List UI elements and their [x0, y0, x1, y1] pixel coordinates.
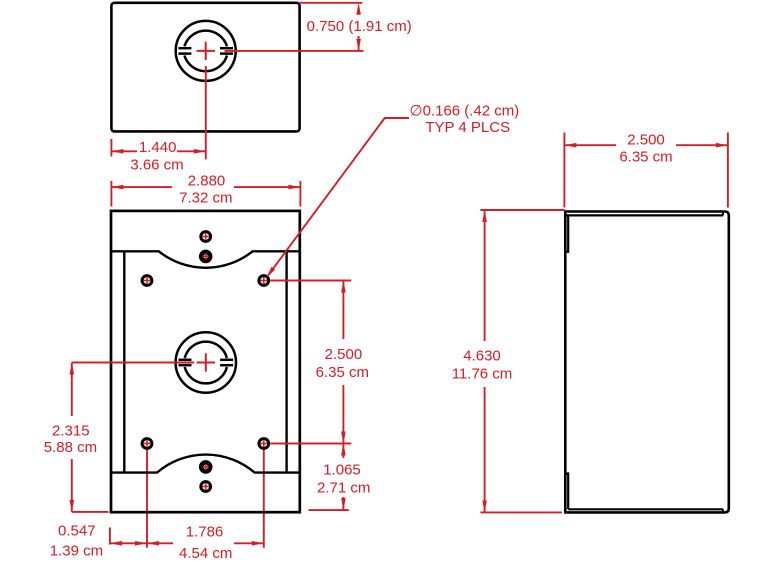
dim 2.880 extension ticks — [110, 181, 112, 207]
svg-text:7.32 cm: 7.32 cm — [179, 190, 232, 207]
dim 1.440 line and arrows — [111, 150, 137, 152]
svg-text:4.54 cm: 4.54 cm — [179, 545, 232, 562]
front view knockout tabs right — [220, 359, 233, 362]
leader arrowhead — [266, 267, 275, 278]
top view centerline down — [205, 66, 207, 159]
svg-text:1.786: 1.786 — [186, 523, 224, 540]
top view knockout outer circle — [176, 21, 236, 81]
dim 1.786 line and arrows — [147, 542, 173, 544]
dim 4.630 line and arrows — [484, 210, 486, 341]
svg-text:5.88 cm: 5.88 cm — [44, 439, 97, 456]
side view outline — [565, 212, 729, 513]
front view red: hole centerline right-bottom — [263, 449, 265, 548]
dim 2.315 center extension line — [72, 362, 194, 364]
svg-text:2.500: 2.500 — [627, 132, 665, 149]
hole bottom-2 (bold) — [201, 462, 210, 471]
front view bottom band line with arc — [111, 455, 300, 473]
svg-text:2.880: 2.880 — [188, 172, 226, 189]
dim 2.315 bottom extension line — [72, 511, 109, 513]
front view inner flange line left — [123, 251, 125, 472]
dim right extensions — [271, 280, 352, 282]
top view center cross — [197, 50, 215, 52]
svg-text:0.547: 0.547 — [58, 523, 96, 540]
dim 0.750 extension line top — [299, 2, 363, 4]
top view box outline — [111, 3, 299, 132]
dim 2.500 side line and arrows — [564, 144, 616, 146]
hole upper-left — [142, 276, 152, 286]
svg-text:2.500: 2.500 — [325, 346, 363, 363]
svg-text:TYP 4 PLCS: TYP 4 PLCS — [425, 119, 510, 136]
top view centerline to right — [225, 50, 364, 52]
dim 0.750 arrow down with line — [358, 36, 360, 51]
dim 2.500 side extensions — [563, 133, 565, 208]
front view knockout tabs left — [179, 359, 192, 362]
hole lower-right — [259, 439, 269, 449]
dim 1.440 extension tick — [110, 139, 112, 157]
svg-text:1.065: 1.065 — [323, 462, 361, 479]
dim bottom extension tick — [109, 528, 111, 545]
hole bottom (normal) — [201, 482, 211, 492]
front view red: hole centerline left-bottom — [146, 449, 148, 548]
svg-text:3.66 cm: 3.66 cm — [130, 156, 183, 173]
hole top-2 (bold) — [201, 252, 210, 261]
front view center cross — [197, 362, 215, 364]
dim 0.750 arrow up — [356, 3, 361, 15]
top view knockout tabs left — [178, 47, 191, 50]
dim 4.630 extensions — [480, 209, 564, 211]
front view knockout inner circle (broken at sides) — [185, 342, 227, 384]
svg-text:6.35 cm: 6.35 cm — [619, 149, 672, 166]
dim 2.315 line and arrows — [71, 363, 73, 417]
front view inner flange line right — [285, 251, 287, 472]
front view outline — [111, 211, 300, 512]
svg-text:6.35 cm: 6.35 cm — [316, 364, 369, 381]
side view bottom flange lip — [565, 474, 568, 510]
leader line for hole callout — [268, 118, 409, 275]
svg-text:∅0.166 (.42 cm): ∅0.166 (.42 cm) — [410, 102, 520, 119]
side view top inner wall line — [565, 214, 723, 216]
front view top band line with arc — [111, 251, 300, 267]
hole upper-right — [259, 276, 269, 286]
top view knockout inner circle (broken at sides) — [184, 31, 227, 72]
svg-text:4.630: 4.630 — [463, 348, 501, 365]
svg-text:2.71 cm: 2.71 cm — [317, 479, 370, 496]
side view bottom inner wall line — [568, 508, 723, 510]
svg-text:2.315: 2.315 — [52, 422, 90, 439]
top view knockout tabs right — [220, 47, 233, 50]
front view knockout outer circle — [176, 332, 236, 392]
side view top flange lip — [565, 215, 568, 251]
svg-text:1.39 cm: 1.39 cm — [50, 543, 103, 560]
svg-text:1.440: 1.440 — [139, 139, 177, 156]
dim 1.065 line and arrows — [341, 444, 346, 456]
hole top (normal) — [201, 232, 211, 242]
red crosses in small holes — [144, 233, 267, 489]
svg-text:0.750 (1.91 cm): 0.750 (1.91 cm) — [307, 18, 412, 35]
svg-text:11.76 cm: 11.76 cm — [452, 365, 513, 382]
dim 2.880 line and arrows — [111, 186, 172, 188]
dim 2.500 right line and arrows — [342, 281, 344, 340]
dim 0.547 line and arrows — [110, 542, 147, 544]
hole lower-left — [142, 439, 152, 449]
